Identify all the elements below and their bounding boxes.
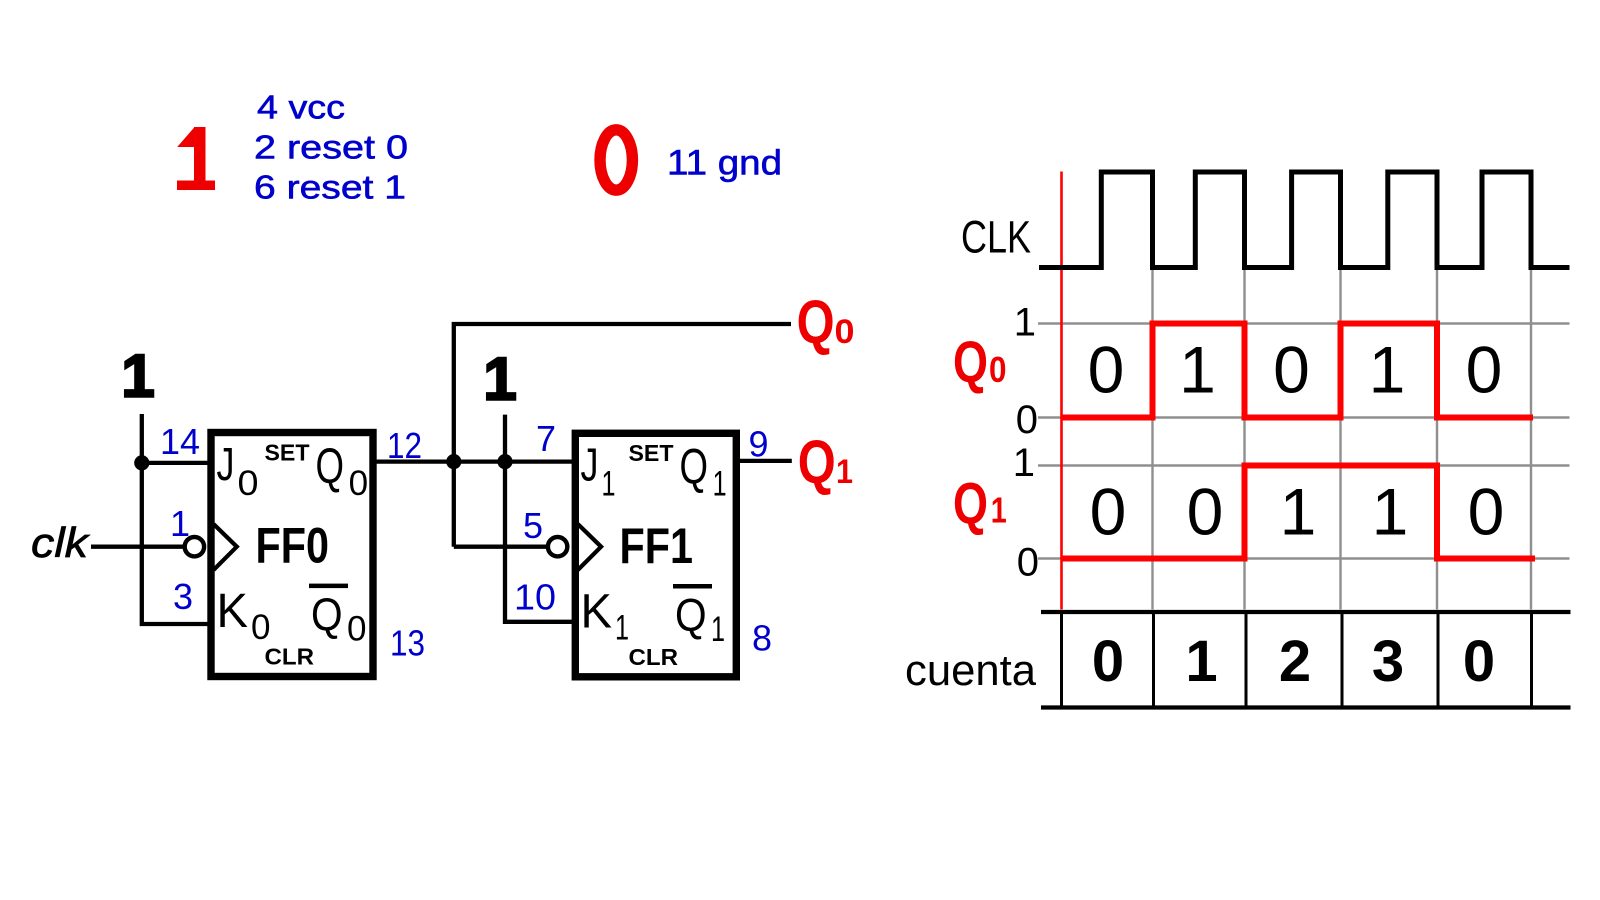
svg-text:1: 1 xyxy=(1369,333,1406,407)
svg-text:14: 14 xyxy=(160,421,200,462)
svg-text:0: 0 xyxy=(989,349,1007,390)
svg-text:1: 1 xyxy=(1179,333,1216,407)
svg-text:Q: Q xyxy=(953,472,988,537)
svg-text:0: 0 xyxy=(238,464,259,503)
svg-text:6 reset 1: 6 reset 1 xyxy=(254,168,406,205)
svg-text:0: 0 xyxy=(1273,333,1310,407)
svg-text:CLR: CLR xyxy=(265,644,315,670)
svg-text:CLR: CLR xyxy=(629,644,679,670)
svg-text:3: 3 xyxy=(1372,629,1404,694)
svg-text:4 vcc: 4 vcc xyxy=(257,89,345,126)
svg-text:5: 5 xyxy=(523,505,543,546)
svg-text:0: 0 xyxy=(1088,333,1125,407)
svg-text:Q: Q xyxy=(953,330,988,395)
svg-text:0: 0 xyxy=(1017,541,1039,585)
svg-text:1: 1 xyxy=(483,346,516,413)
svg-text:clk: clk xyxy=(31,519,90,566)
svg-text:1: 1 xyxy=(1372,475,1409,549)
svg-text:Q: Q xyxy=(316,438,345,494)
svg-text:Q: Q xyxy=(797,288,835,356)
svg-text:0: 0 xyxy=(835,313,855,351)
svg-text:1: 1 xyxy=(1280,475,1317,549)
svg-text:0: 0 xyxy=(347,610,367,649)
svg-text:J: J xyxy=(581,439,599,491)
svg-text:10: 10 xyxy=(514,576,556,617)
svg-text:0: 0 xyxy=(1466,333,1503,407)
svg-text:0: 0 xyxy=(251,608,271,647)
svg-text:SET: SET xyxy=(265,440,310,466)
svg-text:11 gnd: 11 gnd xyxy=(667,144,782,183)
svg-text:3: 3 xyxy=(173,576,193,617)
svg-text:0: 0 xyxy=(349,464,369,503)
svg-text:Q: Q xyxy=(675,589,707,641)
svg-text:FF1: FF1 xyxy=(620,518,694,574)
svg-text:13: 13 xyxy=(390,623,425,664)
svg-text:1: 1 xyxy=(615,609,629,648)
svg-text:1: 1 xyxy=(991,489,1007,530)
svg-text:SET: SET xyxy=(629,440,674,466)
svg-text:1: 1 xyxy=(1014,301,1036,345)
svg-text:1: 1 xyxy=(602,465,616,504)
svg-text:0: 0 xyxy=(1090,475,1127,549)
svg-text:K: K xyxy=(217,585,249,638)
svg-text:0: 0 xyxy=(1187,475,1224,549)
svg-text:0: 0 xyxy=(1463,629,1495,694)
svg-text:1: 1 xyxy=(713,465,727,504)
svg-text:1: 1 xyxy=(836,453,853,491)
svg-text:K: K xyxy=(581,586,613,639)
svg-text:2 reset 0: 2 reset 0 xyxy=(254,128,408,165)
svg-text:8: 8 xyxy=(752,617,772,658)
svg-text:Q: Q xyxy=(311,588,343,640)
svg-text:CLK: CLK xyxy=(961,212,1031,263)
svg-text:J: J xyxy=(217,438,235,490)
svg-text:1: 1 xyxy=(1013,441,1035,485)
svg-text:FF0: FF0 xyxy=(256,518,330,574)
svg-text:0: 0 xyxy=(1468,475,1505,549)
svg-text:1: 1 xyxy=(170,503,190,544)
svg-text:1: 1 xyxy=(711,610,725,649)
svg-text:0: 0 xyxy=(1016,398,1038,442)
svg-text:2: 2 xyxy=(1279,629,1311,694)
svg-text:1: 1 xyxy=(1185,629,1217,694)
svg-text:9: 9 xyxy=(749,424,769,465)
svg-text:Q: Q xyxy=(680,439,709,495)
svg-text:1: 1 xyxy=(121,343,154,410)
svg-text:Q: Q xyxy=(798,428,836,496)
svg-text:0: 0 xyxy=(1092,629,1124,694)
svg-text:cuenta: cuenta xyxy=(905,646,1037,695)
svg-text:7: 7 xyxy=(536,418,556,459)
svg-text:12: 12 xyxy=(387,425,422,466)
